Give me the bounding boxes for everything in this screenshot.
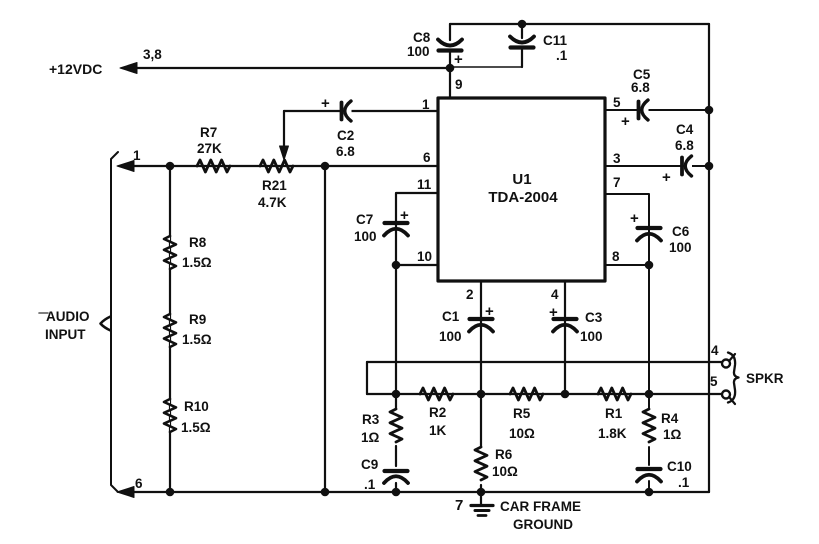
capacitor C2	[344, 104, 352, 118]
svg-text:C10: C10	[667, 459, 692, 474]
resistor R6	[480, 394, 482, 492]
svg-text:INPUT: INPUT	[45, 327, 86, 342]
wire pin 10 line	[396, 264, 438, 266]
svg-text:.1: .1	[556, 48, 568, 63]
svg-text:AUDIO: AUDIO	[46, 309, 90, 324]
AUDIO INPUT brace	[101, 317, 111, 331]
capacitor C1	[470, 317, 493, 321]
capacitor C3	[554, 317, 577, 321]
svg-text:+: +	[454, 51, 463, 68]
svg-text:GROUND: GROUND	[513, 517, 573, 532]
svg-text:100: 100	[407, 44, 430, 59]
svg-text:+: +	[662, 169, 671, 186]
svg-text:+: +	[485, 303, 494, 320]
wire pin 8 line	[605, 264, 649, 266]
svg-text:9: 9	[455, 77, 463, 92]
wire +12VDC supply line	[124, 67, 450, 69]
svg-text:C6: C6	[672, 224, 690, 239]
svg-text:1K: 1K	[429, 423, 447, 438]
svg-text:5: 5	[710, 374, 718, 389]
node C5 rail junction	[705, 106, 714, 115]
input arrow terminal 6	[117, 487, 134, 498]
svg-text:R21: R21	[262, 178, 287, 193]
svg-text:C7: C7	[356, 212, 373, 227]
svg-text:+12VDC: +12VDC	[49, 61, 102, 77]
wire C8 branch up to top rail	[449, 24, 451, 68]
wire C11 bottom link to +12V node	[450, 66, 522, 68]
svg-text:4: 4	[711, 343, 719, 358]
svg-text:1Ω: 1Ω	[361, 430, 380, 445]
svg-text:6: 6	[135, 476, 143, 491]
svg-text:TDA-2004: TDA-2004	[488, 189, 558, 206]
node pin2/R6 bus junction	[477, 390, 486, 399]
svg-text:C3: C3	[585, 310, 603, 325]
svg-text:R10: R10	[184, 399, 209, 414]
svg-text:CAR FRAME: CAR FRAME	[500, 499, 581, 514]
+12VDC arrow terminal	[120, 63, 137, 74]
svg-text:SPKR: SPKR	[746, 371, 784, 386]
wire mid vertical from main line to ground	[324, 166, 326, 492]
node R8 top junction	[166, 162, 175, 171]
terminal 5 circle	[722, 391, 730, 399]
capacitor C8	[438, 40, 462, 46]
svg-text:.1: .1	[364, 477, 376, 492]
svg-text:R4: R4	[661, 411, 679, 426]
input arrow terminal 1	[117, 161, 134, 172]
node +12VDC junction at pin 9	[446, 64, 455, 73]
node C10 ground junction	[645, 488, 654, 497]
svg-text:C2: C2	[337, 128, 354, 143]
svg-text:2: 2	[466, 287, 474, 302]
node R3 bus junction	[392, 390, 401, 399]
svg-text:R2: R2	[429, 405, 446, 420]
svg-text:1.5Ω: 1.5Ω	[182, 332, 212, 347]
wire speaker bus left jumper	[366, 362, 368, 394]
wire pin 4 vertical	[564, 281, 566, 394]
resistor R5	[510, 388, 543, 400]
svg-text:4.7K: 4.7K	[258, 195, 287, 210]
svg-text:100: 100	[354, 229, 377, 244]
wire pin 9 stub	[449, 68, 451, 98]
svg-text:11: 11	[417, 177, 432, 192]
resistor R4	[648, 394, 650, 465]
wire speaker bus top line	[367, 361, 723, 363]
capacitor C5	[641, 103, 649, 117]
terminal 4 circle	[722, 360, 730, 368]
R21 wiper arrow	[280, 146, 289, 160]
node C4 rail junction	[705, 162, 714, 171]
svg-text:100: 100	[439, 329, 462, 344]
svg-text:R5: R5	[513, 406, 531, 421]
svg-text:C11: C11	[543, 33, 568, 48]
resistor R8	[164, 236, 176, 269]
svg-text:6: 6	[423, 150, 431, 165]
capacitor C6	[638, 226, 661, 230]
svg-text:.1: .1	[678, 475, 690, 490]
terminal 5 tick	[730, 398, 736, 405]
wire pin 11 line	[396, 193, 438, 265]
svg-text:+: +	[321, 95, 330, 112]
node R4 bus junction	[645, 390, 654, 399]
wire pin 5 line	[605, 109, 709, 111]
svg-text:10Ω: 10Ω	[509, 426, 535, 441]
node C11 top junction	[518, 20, 527, 29]
svg-text:1.8K: 1.8K	[598, 426, 627, 441]
svg-text:1.5Ω: 1.5Ω	[182, 255, 212, 270]
wire R8 chain vertical	[169, 166, 171, 492]
svg-text:100: 100	[580, 329, 603, 344]
svg-text:1Ω: 1Ω	[663, 427, 682, 442]
SPKR brace	[728, 353, 739, 403]
svg-text:C1: C1	[442, 309, 460, 324]
svg-text:+: +	[549, 304, 558, 321]
wire pin 7 line	[605, 194, 649, 265]
svg-text:3: 3	[613, 151, 621, 166]
wire right vertical rail	[708, 24, 710, 492]
resistor R9	[164, 314, 176, 347]
node pin8/C6 junction	[645, 261, 654, 270]
capacitor C7	[385, 221, 408, 225]
node C9 ground junction	[392, 488, 401, 497]
svg-text:4: 4	[551, 287, 559, 302]
svg-text:8: 8	[612, 249, 620, 264]
svg-text:100: 100	[669, 240, 692, 255]
svg-text:R1: R1	[605, 406, 623, 421]
svg-text:3,8: 3,8	[143, 47, 162, 62]
wire pin 2 vertical	[480, 281, 482, 394]
capacitor C4	[684, 159, 692, 173]
terminal 4 tick	[730, 354, 736, 361]
svg-text:6.8: 6.8	[336, 144, 355, 159]
node vertical feed junction	[321, 162, 330, 171]
IC U1 TDA-2004 body	[438, 98, 605, 281]
node mid vertical ground junction	[321, 488, 330, 497]
wire R21 wiper drop	[283, 111, 285, 146]
svg-text:10: 10	[417, 249, 432, 264]
resistor R10	[164, 399, 176, 432]
wire left bracket of audio input	[111, 152, 118, 492]
svg-text:+: +	[621, 113, 630, 130]
svg-text:1: 1	[422, 97, 430, 112]
svg-text:R8: R8	[189, 235, 207, 250]
svg-text:C4: C4	[676, 122, 694, 137]
wire pin 3 line	[605, 165, 709, 167]
svg-text:R6: R6	[495, 447, 513, 462]
svg-text:R7: R7	[200, 125, 217, 140]
scan dash artifact left of AUDIO	[39, 312, 48, 314]
node R6 ground junction	[477, 488, 486, 497]
resistor R2	[420, 388, 453, 400]
node R10 ground junction	[166, 488, 175, 497]
wire top rail	[450, 23, 709, 25]
svg-text:27K: 27K	[197, 141, 222, 156]
wire vertical from pin8 node to bus	[648, 265, 650, 394]
ground symbol pin 7 car frame ground	[480, 492, 482, 504]
svg-text:1: 1	[133, 148, 141, 163]
node pin4/C3 bus junction	[561, 390, 570, 399]
wire ground line	[121, 491, 709, 493]
resistor R3	[395, 394, 397, 466]
svg-text:6.8: 6.8	[675, 138, 694, 153]
svg-text:10Ω: 10Ω	[492, 464, 518, 479]
svg-text:6.8: 6.8	[631, 80, 650, 95]
svg-text:U1: U1	[512, 171, 531, 188]
svg-text:5: 5	[613, 95, 621, 110]
capacitor C11	[521, 24, 523, 67]
svg-text:+: +	[630, 210, 639, 227]
svg-text:C9: C9	[361, 457, 378, 472]
svg-text:+: +	[400, 207, 409, 224]
svg-text:7: 7	[613, 175, 621, 190]
svg-text:R9: R9	[189, 312, 206, 327]
svg-text:R3: R3	[362, 412, 380, 427]
node pin10/C7 junction	[392, 261, 401, 270]
svg-text:7: 7	[455, 497, 463, 514]
wire pin 1 line	[284, 110, 438, 112]
wire main input line (pin 6)	[121, 165, 438, 167]
wire vertical from pin10 node down to bus	[395, 265, 397, 394]
capacitor C10	[638, 467, 661, 471]
resistor R21	[260, 160, 293, 172]
svg-text:1.5Ω: 1.5Ω	[181, 420, 211, 435]
resistor R1	[598, 388, 631, 400]
resistor R7	[197, 160, 230, 172]
wire speaker bus bottom line	[367, 393, 723, 395]
capacitor C9	[385, 469, 408, 473]
svg-text:C8: C8	[413, 30, 431, 45]
